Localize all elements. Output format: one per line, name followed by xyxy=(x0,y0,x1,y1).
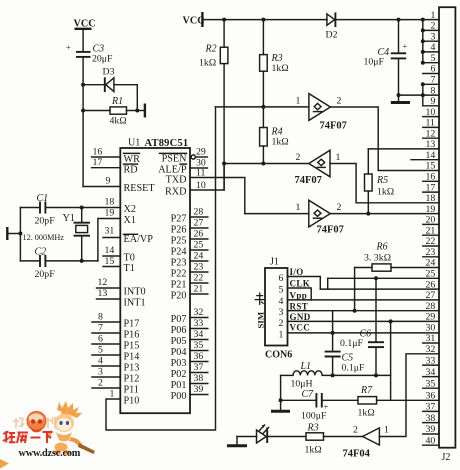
svg-text:4kΩ: 4kΩ xyxy=(110,116,128,127)
terminal stub right of R1 xyxy=(137,104,145,118)
wire column down to RESET xyxy=(82,85,84,187)
svg-text:33: 33 xyxy=(194,318,204,329)
pin 11 TXD wire to buffer U4 input xyxy=(166,168,245,214)
svg-text:13: 13 xyxy=(426,139,436,150)
wire ground rail under C5/C6 xyxy=(333,374,391,376)
svg-text:16: 16 xyxy=(93,147,103,158)
svg-text:40: 40 xyxy=(426,435,436,446)
connector J2 pin 35 stub xyxy=(423,378,439,389)
pin 36 P03 stub xyxy=(171,351,208,369)
svg-text:INT1: INT1 xyxy=(124,298,146,309)
connector J2 pin 8 stub xyxy=(423,85,439,96)
svg-text:C2: C2 xyxy=(35,247,47,258)
svg-text:AT89C51: AT89C51 xyxy=(145,138,189,149)
IC U1 AT89C51 body xyxy=(120,138,190,414)
node GND drop xyxy=(389,319,393,323)
connector J2 pin 23 stub xyxy=(423,247,439,258)
svg-text:9: 9 xyxy=(106,176,111,187)
pin 13 INT1 stub xyxy=(97,288,146,309)
svg-text:3. 3kΩ: 3. 3kΩ xyxy=(364,253,392,264)
wire I/O jog xyxy=(288,277,321,290)
connector J2 pin 10 stub xyxy=(423,107,439,118)
node C4 top xyxy=(397,18,401,22)
svg-text:4: 4 xyxy=(431,42,436,53)
svg-text:P02: P02 xyxy=(171,369,187,380)
svg-text:10μH: 10μH xyxy=(291,379,313,390)
svg-text:P23: P23 xyxy=(171,258,187,269)
node C6 bottom xyxy=(374,373,378,377)
svg-text:P04: P04 xyxy=(171,347,187,358)
capacitor C2 20pF xyxy=(20,247,55,281)
svg-text:T1: T1 xyxy=(124,263,135,274)
svg-text:0.1μF: 0.1μF xyxy=(342,363,365,374)
svg-text:1: 1 xyxy=(384,425,389,436)
wire R7 to J2 pin 36 xyxy=(377,399,439,401)
wire R3 to inverter output xyxy=(324,436,363,438)
ground below C4 xyxy=(391,101,410,104)
wire I/O riser to pin25 level xyxy=(327,278,329,289)
connector J1 CON6 body xyxy=(265,257,292,361)
svg-text:11: 11 xyxy=(426,118,436,129)
svg-text:2: 2 xyxy=(98,378,103,389)
svg-text:D3: D3 xyxy=(103,67,115,78)
node bus pin 7 xyxy=(421,82,425,86)
svg-text:21: 21 xyxy=(426,225,436,236)
pin 1 P10 wire loop to buffer U2 input xyxy=(106,107,216,430)
wire R3 bottom to buffer1 input line xyxy=(262,71,264,127)
watermark dzsc.com logo group (decorative but reproduced) xyxy=(0,401,95,469)
svg-text:20μF: 20μF xyxy=(92,54,113,65)
svg-text:22: 22 xyxy=(426,236,436,247)
wire link RST line to VCC line (C5 column upper extension) xyxy=(332,311,334,333)
svg-text:R1: R1 xyxy=(111,96,123,107)
svg-text:P01: P01 xyxy=(171,380,187,391)
wire GND column to R7 line xyxy=(390,321,392,400)
connector J2 pin 3 stub xyxy=(423,31,439,42)
pin 23 P22 stub xyxy=(171,262,208,280)
svg-text:35: 35 xyxy=(426,378,436,389)
pin 6 P15 stub xyxy=(92,334,139,352)
node bus pin 3 xyxy=(421,39,425,43)
svg-text:20: 20 xyxy=(426,215,436,226)
svg-text:1kΩ: 1kΩ xyxy=(272,137,290,148)
svg-text:35: 35 xyxy=(194,340,204,351)
ground below C7 junction xyxy=(271,410,290,413)
svg-text:1: 1 xyxy=(296,202,301,213)
svg-text:R3: R3 xyxy=(307,423,319,434)
svg-text:22: 22 xyxy=(194,273,204,284)
svg-text:10μF: 10μF xyxy=(364,57,385,68)
wire C1 to X2 xyxy=(46,207,120,209)
capacitor C7 100uF xyxy=(281,389,329,422)
terminal bar left of crystal network xyxy=(7,227,20,240)
svg-text:11: 11 xyxy=(196,168,206,179)
node crystal bottom xyxy=(80,259,84,263)
svg-text:34: 34 xyxy=(426,367,436,378)
svg-text:19: 19 xyxy=(105,208,115,219)
svg-text:31: 31 xyxy=(105,226,115,237)
inductor L1 10uH xyxy=(281,361,333,390)
wire buffer2 input from pin18 xyxy=(330,164,439,203)
svg-text:R6: R6 xyxy=(376,242,388,253)
wire left rail xyxy=(19,208,21,261)
resistor R1 4k xyxy=(83,96,137,127)
connector J2 pin 21 stub xyxy=(423,225,439,236)
svg-text:32: 32 xyxy=(194,307,204,318)
glyph KA of SIM-card label (vector strokes) xyxy=(255,293,265,306)
pin 2 P11 stub xyxy=(92,378,139,396)
wire bus pins 7-9 xyxy=(422,84,424,106)
connector J2 pin 33 stub xyxy=(423,355,439,366)
capacitor C5 0.1uF xyxy=(325,333,365,376)
svg-text:16: 16 xyxy=(426,172,436,183)
wire C4 bottom to pin8 bus xyxy=(399,94,423,96)
svg-text:Vpp: Vpp xyxy=(290,290,308,300)
svg-text:P22: P22 xyxy=(171,269,187,280)
svg-text:21: 21 xyxy=(194,284,204,295)
node bus pin 4 xyxy=(421,50,425,54)
svg-text:1kΩ: 1kΩ xyxy=(377,187,395,198)
svg-text:34: 34 xyxy=(194,329,204,340)
svg-text:25: 25 xyxy=(194,240,204,251)
wire L1 left down to C7 line xyxy=(280,375,282,409)
svg-text:4: 4 xyxy=(98,356,103,367)
svg-text:26: 26 xyxy=(194,229,204,240)
svg-text:T0: T0 xyxy=(124,253,135,264)
connector J2 pin 34 stub xyxy=(423,367,439,378)
svg-text:SIM: SIM xyxy=(256,311,266,328)
svg-text:1kΩ: 1kΩ xyxy=(358,408,376,419)
svg-text:2: 2 xyxy=(337,96,342,107)
svg-text:WR: WR xyxy=(124,154,141,165)
svg-text:8: 8 xyxy=(98,312,103,323)
svg-text:P16: P16 xyxy=(124,330,140,341)
svg-text:14: 14 xyxy=(426,150,436,161)
svg-text:17: 17 xyxy=(426,182,436,193)
pin 35 P04 stub xyxy=(171,340,208,358)
op-collector buffer U2 74F07 xyxy=(296,94,347,132)
svg-text:PSEN: PSEN xyxy=(162,154,188,165)
node R2 top xyxy=(222,18,226,22)
wire LED to R3 xyxy=(267,436,306,438)
svg-text:5: 5 xyxy=(431,53,436,64)
connector J2 pin 40 stub xyxy=(423,435,439,446)
pin 18 X2 label xyxy=(105,197,136,216)
resistor R5 1k xyxy=(365,149,395,214)
svg-text:5: 5 xyxy=(279,285,284,296)
svg-text:INT0: INT0 xyxy=(124,287,146,298)
wire R4 bottom to buffer2 output line xyxy=(262,146,264,164)
svg-text:1kΩ: 1kΩ xyxy=(305,445,323,456)
pin 22 P21 stub xyxy=(171,273,208,291)
svg-text:20pF: 20pF xyxy=(35,269,56,280)
svg-text:L1: L1 xyxy=(300,361,312,372)
resistor R2 1k xyxy=(199,20,228,69)
diode D3 xyxy=(103,67,115,93)
svg-text:74F04: 74F04 xyxy=(343,449,371,460)
svg-text:39: 39 xyxy=(426,424,436,435)
node bus pin 5 xyxy=(421,61,425,65)
op-collector buffer U3 74F07 (left pointing) xyxy=(295,150,341,186)
node bus pin 2 xyxy=(421,28,425,32)
node pin1 bus xyxy=(421,18,425,22)
pin 33 P06 stub xyxy=(171,318,208,336)
connector J2 pin 6 stub xyxy=(423,64,439,75)
pin 27 P26 stub xyxy=(171,218,208,236)
svg-text:2: 2 xyxy=(279,318,284,329)
pin 16 WR stub xyxy=(92,147,141,165)
svg-text:P03: P03 xyxy=(171,358,187,369)
pin 34 P05 stub xyxy=(171,329,208,347)
wire VCC rail to D2 anode xyxy=(202,19,327,21)
pin 25 P24 stub xyxy=(171,240,208,258)
svg-text:2: 2 xyxy=(353,425,358,436)
ground left of LED xyxy=(227,437,247,446)
svg-text:28: 28 xyxy=(194,207,204,218)
svg-text:0.1μF: 0.1μF xyxy=(340,338,363,349)
svg-text:GND: GND xyxy=(290,312,311,322)
svg-text:18: 18 xyxy=(426,193,436,204)
svg-text:P15: P15 xyxy=(124,341,140,352)
svg-text:J2: J2 xyxy=(442,452,451,463)
connector J2 pin 20 stub xyxy=(423,215,439,226)
svg-text:EA/VP: EA/VP xyxy=(124,234,154,245)
svg-text:P21: P21 xyxy=(171,280,187,291)
svg-text:4: 4 xyxy=(279,296,284,307)
wire C3 bottom to node xyxy=(82,57,84,85)
svg-text:9: 9 xyxy=(431,96,436,107)
wire buffer3 input line from TXD xyxy=(245,213,309,215)
pin 3 P12 stub xyxy=(92,367,139,385)
svg-text:15: 15 xyxy=(426,161,436,172)
pin 8 P17 stub xyxy=(92,312,139,330)
connector J2 pin 22 stub xyxy=(423,236,439,247)
svg-text:31: 31 xyxy=(426,333,436,344)
svg-text:P10: P10 xyxy=(124,396,140,407)
svg-text:100μF: 100μF xyxy=(301,411,327,422)
node C6 top tap xyxy=(374,276,378,280)
svg-text:24: 24 xyxy=(194,251,204,262)
svg-text:Y1: Y1 xyxy=(63,213,75,224)
svg-text:+: + xyxy=(403,41,408,51)
node R5 bottom xyxy=(366,212,370,216)
svg-text:17: 17 xyxy=(93,157,103,168)
connector J2 pin 38 stub xyxy=(423,413,439,424)
svg-text:12: 12 xyxy=(98,277,108,288)
svg-text:37: 37 xyxy=(194,362,204,373)
capacitor C3 20uF xyxy=(66,42,113,65)
svg-text:C1: C1 xyxy=(37,193,49,204)
svg-text:2: 2 xyxy=(431,21,436,32)
pin 28 P27 stub xyxy=(171,207,208,225)
svg-text:3: 3 xyxy=(431,31,436,42)
wire GND to J2 pin 29 xyxy=(288,320,440,322)
svg-text:P17: P17 xyxy=(124,319,140,330)
pin 31 EA/VP stub xyxy=(103,226,153,246)
svg-text:5: 5 xyxy=(98,345,103,356)
svg-text:1: 1 xyxy=(431,10,436,21)
svg-text:P13: P13 xyxy=(124,363,140,374)
svg-text:P00: P00 xyxy=(171,391,187,402)
svg-text:1: 1 xyxy=(296,96,301,107)
pin 39 P00 stub xyxy=(171,384,208,402)
resistor R3 1k (LED series) xyxy=(305,423,324,456)
svg-text:12. 000MHz: 12. 000MHz xyxy=(23,233,65,242)
wire I/O to J2 pin 25 xyxy=(328,277,439,279)
connector J2 pin 17 stub xyxy=(423,182,439,193)
svg-text:P07: P07 xyxy=(171,314,187,325)
node bus pin 8 xyxy=(421,93,425,97)
svg-text:23: 23 xyxy=(194,262,204,273)
svg-text:RST: RST xyxy=(290,301,309,311)
pin 32 P07 stub xyxy=(171,307,208,325)
pin 37 P02 stub xyxy=(171,362,208,380)
svg-text:RXD: RXD xyxy=(165,187,187,198)
wire X1 riser xyxy=(98,219,120,261)
svg-text:CON6: CON6 xyxy=(265,350,292,361)
crystal Y1 12.000MHz xyxy=(23,208,91,261)
node R6 bottom on RST line xyxy=(353,309,357,313)
wire pin13 line xyxy=(368,148,439,150)
svg-text:38: 38 xyxy=(194,373,204,384)
svg-text:I/O: I/O xyxy=(290,267,304,277)
svg-text:10: 10 xyxy=(426,107,436,118)
connector J2 pin 7 stub xyxy=(423,75,439,86)
pin 29 PSEN stub with circle xyxy=(160,147,208,165)
wire ground to LED xyxy=(237,436,257,438)
connector J2 pin 11 stub xyxy=(423,118,439,129)
connector J1 pin numbers xyxy=(279,273,284,341)
LED indicator diode xyxy=(257,425,269,443)
wire RST to J2 pin 28 xyxy=(288,310,440,312)
connector J2 pin 31 stub xyxy=(423,333,439,344)
node C7 left junction xyxy=(279,398,283,402)
svg-text:1: 1 xyxy=(279,330,284,341)
wire Vpp / CLK to J2 pin 27 xyxy=(288,299,440,301)
pin 38 P01 stub xyxy=(171,373,208,391)
pin 12 INT0 stub xyxy=(97,277,146,298)
wire C7 to R7 xyxy=(323,399,358,401)
svg-text:RD: RD xyxy=(124,165,138,176)
node R1 left junction xyxy=(81,109,85,113)
svg-text:10: 10 xyxy=(196,180,206,191)
svg-text:CLK: CLK xyxy=(290,279,311,289)
pin 21 P20 stub xyxy=(171,284,208,302)
svg-text:R5: R5 xyxy=(376,175,388,186)
svg-text:13: 13 xyxy=(98,288,108,299)
svg-text:1: 1 xyxy=(110,389,115,400)
wire D3 to right corner xyxy=(114,85,137,111)
svg-text:74F07: 74F07 xyxy=(317,225,344,236)
node left rail junction xyxy=(18,232,22,236)
node crystal top xyxy=(80,206,84,210)
inverter U5 74F04 (left pointing) xyxy=(343,425,390,460)
svg-text:P27: P27 xyxy=(171,214,187,225)
wire buffer1 input line from P10 riser xyxy=(216,106,309,108)
resistor R6 3.3k xyxy=(355,242,439,311)
svg-text:7: 7 xyxy=(98,323,103,334)
svg-text:X2: X2 xyxy=(124,204,136,215)
svg-text:29: 29 xyxy=(196,147,206,158)
svg-text:P25: P25 xyxy=(171,236,187,247)
svg-text:RESET: RESET xyxy=(124,183,156,194)
connector J2 body xyxy=(439,7,455,463)
svg-text:P06: P06 xyxy=(171,325,187,336)
node buffer2 output / R2 column xyxy=(222,162,226,166)
node C5 top tap xyxy=(331,331,335,335)
diode D2 xyxy=(326,12,338,40)
pin 26 P25 stub xyxy=(171,229,208,247)
svg-text:D2: D2 xyxy=(326,30,338,41)
connector J2 pin 2 stub xyxy=(423,21,439,32)
capacitor C1 20pF xyxy=(20,193,55,227)
svg-text:7: 7 xyxy=(431,75,436,86)
svg-text:3: 3 xyxy=(279,307,284,318)
svg-text:74F07: 74F07 xyxy=(320,121,347,132)
pin 14 T0 stub xyxy=(103,245,135,264)
wire D2 cathode to connector pin 1 xyxy=(335,19,439,21)
svg-text:15: 15 xyxy=(105,256,115,267)
svg-text:6: 6 xyxy=(431,64,436,75)
node C3/D3/reset column xyxy=(81,83,85,87)
svg-text:74F07: 74F07 xyxy=(295,175,322,186)
wire to J2 pin 26 xyxy=(320,288,439,290)
connector J2 pin 37 stub xyxy=(423,402,439,413)
pin 19 X1 label xyxy=(105,208,136,227)
svg-text:U1: U1 xyxy=(128,138,140,149)
connector J2 pin 39 stub xyxy=(423,424,439,435)
svg-text:27: 27 xyxy=(194,218,204,229)
svg-text:23: 23 xyxy=(426,247,436,258)
wire R2 bottom to RXD node column xyxy=(223,64,225,190)
svg-text:R7: R7 xyxy=(360,385,373,396)
svg-text:20pF: 20pF xyxy=(35,216,56,227)
wire buffer2 output line xyxy=(224,163,309,165)
power symbol VCC (reset branch) xyxy=(74,19,96,52)
connector J2 pin 9 stub xyxy=(423,96,439,107)
resistor R3 1k xyxy=(260,20,290,74)
node D3/R1 right junction xyxy=(135,109,139,113)
svg-text:C7: C7 xyxy=(302,389,315,400)
resistor R4 1k xyxy=(260,127,290,148)
pin 9 RESET label xyxy=(106,176,156,195)
svg-text:12: 12 xyxy=(426,128,436,139)
wire node to D3 xyxy=(83,84,104,86)
capacitor C4 10uF xyxy=(364,20,408,101)
svg-text:39: 39 xyxy=(194,384,204,395)
connector J2 pin 5 stub xyxy=(423,53,439,64)
svg-text:P12: P12 xyxy=(124,374,140,385)
wire buffer3 output to pin19 xyxy=(330,213,439,215)
pin 10 RXD wire to R2 column xyxy=(165,164,224,198)
op-collector buffer U4 74F07 xyxy=(296,200,344,235)
pin 7 P16 stub xyxy=(92,323,139,341)
svg-text:P14: P14 xyxy=(124,352,140,363)
resistor R7 1k xyxy=(358,385,377,419)
pin 24 P23 stub xyxy=(171,251,208,269)
svg-text:P20: P20 xyxy=(171,291,187,302)
svg-text:14: 14 xyxy=(105,245,115,256)
svg-text:1: 1 xyxy=(336,152,341,163)
node C4 bottom xyxy=(397,93,401,97)
svg-text:8: 8 xyxy=(431,85,436,96)
connector J2 pin 12 stub xyxy=(423,128,439,139)
svg-text:J1: J1 xyxy=(270,257,279,268)
connector J2 pin 14 stub xyxy=(411,150,439,161)
pin 15 T1 stub xyxy=(103,256,135,274)
wire C2 line to X1 riser xyxy=(46,260,98,262)
connector J2 pin 4 stub xyxy=(423,42,439,53)
